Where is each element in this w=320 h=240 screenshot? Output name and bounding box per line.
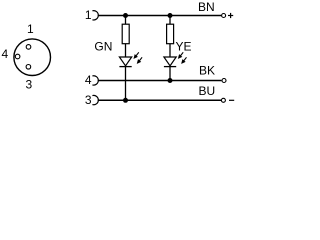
svg-text:BK: BK: [199, 64, 215, 78]
svg-text:4: 4: [85, 73, 92, 87]
svg-text:3: 3: [26, 78, 33, 92]
svg-text:BU: BU: [199, 84, 216, 98]
svg-text:BN: BN: [198, 0, 215, 14]
svg-text:4: 4: [1, 47, 8, 61]
svg-text:YE: YE: [176, 40, 192, 54]
svg-text:1: 1: [27, 22, 34, 36]
svg-text:3: 3: [85, 93, 92, 107]
svg-text:1: 1: [85, 8, 92, 22]
svg-text:GN: GN: [94, 40, 112, 54]
